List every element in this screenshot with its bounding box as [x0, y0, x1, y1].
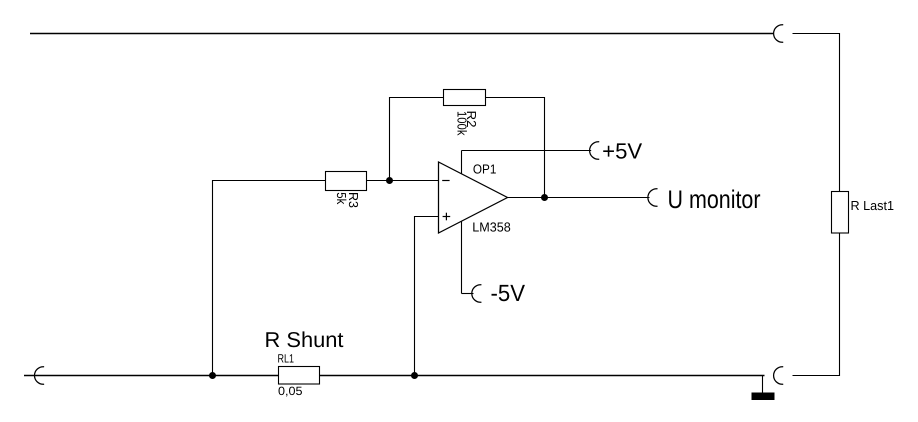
svg-text:R Last1: R Last1: [851, 198, 895, 213]
svg-text:0,05: 0,05: [278, 384, 303, 398]
connector -5V: [472, 285, 482, 303]
svg-text:-5V: -5V: [491, 280, 526, 306]
wire left loop: [213, 181, 326, 376]
pin V-: [461, 219, 463, 294]
resistor R2: [444, 90, 486, 106]
node junction plus loop: [411, 372, 418, 379]
op-amp OP1 triangle: [439, 162, 508, 233]
wire load to bottom-right corner: [793, 233, 840, 376]
wire -5V stub: [462, 293, 474, 295]
svg-text:OP1: OP1: [473, 162, 497, 177]
wire +5V: [462, 150, 592, 152]
wire output: [508, 197, 650, 199]
resistor RL1 (R Shunt): [279, 367, 320, 385]
svg-text:LM358: LM358: [472, 219, 511, 234]
wire top-right corner to load: [793, 34, 840, 192]
svg-text:5k: 5k: [334, 192, 349, 204]
connector bottom-right: [774, 367, 784, 385]
connector top-right: [774, 25, 784, 43]
svg-text:100k: 100k: [454, 111, 469, 136]
wire bottom main: [24, 375, 765, 377]
node junction bottom-left: [209, 372, 216, 379]
svg-text:U monitor: U monitor: [668, 186, 761, 214]
node junction output: [541, 194, 548, 201]
svg-text:RL1: RL1: [278, 352, 295, 366]
connector bottom-left: [34, 367, 44, 385]
wire feedback left: [390, 98, 444, 181]
svg-text:+5V: +5V: [602, 139, 642, 164]
resistor R3: [326, 172, 367, 191]
ground: [762, 376, 764, 394]
wire R3 to op-amp minus input: [367, 180, 439, 182]
wire plus input loop: [415, 217, 439, 376]
node junction R3/feedback: [386, 177, 393, 184]
connector U monitor: [648, 189, 658, 207]
pin plus symbol: [443, 216, 451, 218]
wire feedback right: [486, 98, 545, 198]
resistor R Last1: [832, 192, 849, 234]
svg-text:R Shunt: R Shunt: [265, 328, 344, 352]
pin V+: [461, 151, 463, 177]
pin minus symbol: [442, 180, 449, 182]
connector +5V: [590, 142, 600, 160]
wire top main: [30, 33, 774, 35]
